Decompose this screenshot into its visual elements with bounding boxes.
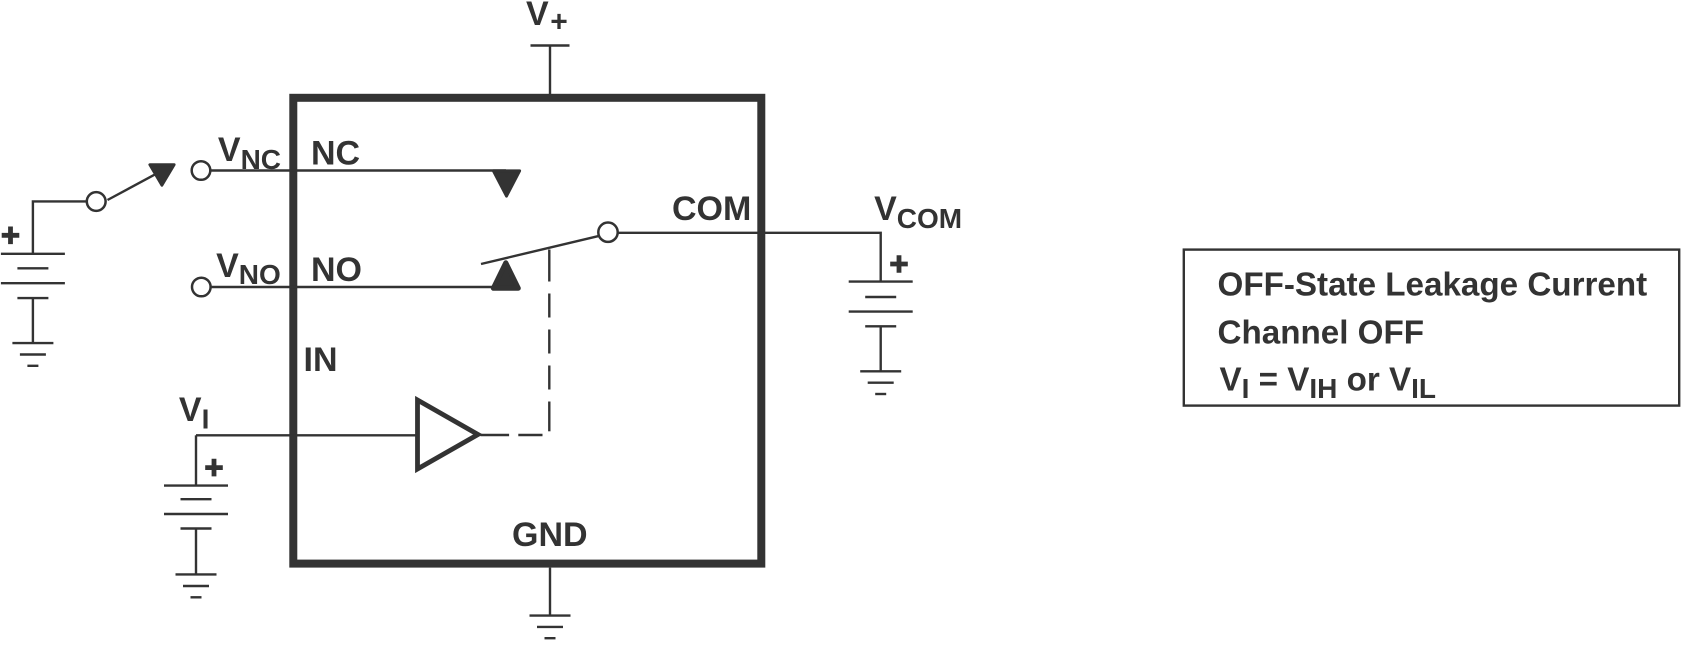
wire GND pin <box>549 568 551 616</box>
svg-text:IN: IN <box>304 341 338 379</box>
wire switch to battery <box>33 201 87 253</box>
battery V2 plus sign <box>890 255 908 273</box>
ground (battery V1) <box>12 343 53 366</box>
NC fixed-contact arrow <box>493 171 519 196</box>
dashed control net (switch to driver) <box>481 250 550 436</box>
wire VI input <box>196 434 416 436</box>
svg-text:NO: NO <box>311 251 362 289</box>
node COM pivot circle <box>598 223 617 242</box>
annotation box <box>1184 250 1679 406</box>
wire COM <box>618 233 881 282</box>
battery V2 plates <box>849 282 913 327</box>
svg-text:NC: NC <box>311 134 360 172</box>
svg-text:Channel OFF: Channel OFF <box>1218 315 1425 352</box>
IC box U1 <box>293 98 761 564</box>
ground (GND pin) <box>530 616 571 639</box>
wire NC <box>211 169 507 171</box>
svg-text:GND: GND <box>512 516 588 554</box>
svg-text:COM: COM <box>672 190 751 228</box>
driver buffer U2 <box>418 400 479 469</box>
V+ supply rail bar <box>531 44 570 46</box>
battery V3 plus sign <box>205 459 223 477</box>
svg-text:OFF-State Leakage Current: OFF-State Leakage Current <box>1218 267 1648 304</box>
external switch blade <box>108 173 159 200</box>
wire NO <box>211 286 500 288</box>
switch blade COM <box>481 236 599 264</box>
ground (battery V3) <box>176 574 217 597</box>
wire V+ to box top <box>549 46 551 95</box>
external switch S1 pivot circle <box>87 192 106 211</box>
node NC terminal circle <box>192 161 211 180</box>
node NO terminal circle <box>192 278 211 297</box>
battery V1 plates <box>1 254 65 298</box>
wire battery V2 to ground <box>880 326 882 371</box>
external switch arrow head <box>150 165 174 186</box>
battery V1 plus sign <box>2 227 20 245</box>
wire battery V1 to ground <box>32 298 34 343</box>
battery V3 plates <box>164 486 228 529</box>
svg-text:V+: V+ <box>526 0 568 39</box>
NO fixed-contact arrow <box>493 263 518 289</box>
wire VI to battery <box>195 435 197 485</box>
wire battery V3 to ground <box>195 529 197 575</box>
ground (battery V2) <box>860 371 901 394</box>
